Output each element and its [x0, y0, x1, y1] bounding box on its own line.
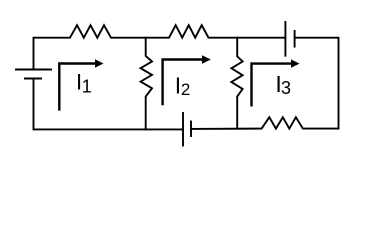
- svg-text:1: 1: [82, 77, 92, 97]
- svg-text:2: 2: [181, 80, 190, 99]
- svg-text:3: 3: [281, 78, 291, 98]
